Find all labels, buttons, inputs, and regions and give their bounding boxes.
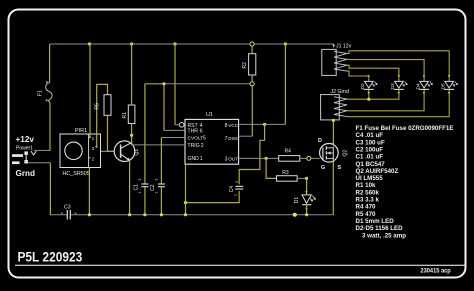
svg-text:D2-D5 1156 LED: D2-D5 1156 LED bbox=[356, 225, 404, 232]
wire: GND pin to ground rail bbox=[184, 164, 187, 216]
resistor R3 bbox=[277, 170, 298, 181]
svg-text:D4: D4 bbox=[415, 83, 421, 89]
svg-text:J2 Grnd: J2 Grnd bbox=[331, 89, 350, 95]
svg-text:5: 5 bbox=[203, 136, 206, 142]
svg-text:Power1: Power1 bbox=[16, 145, 33, 151]
wire: THR pin up to timing node bbox=[164, 84, 185, 131]
wire: timing node down through C1 to ground bbox=[144, 84, 146, 216]
svg-text:C4: C4 bbox=[229, 186, 235, 193]
LED D2 bbox=[360, 75, 377, 94]
+12V top rail bbox=[50, 44, 334, 47]
svg-text:2: 2 bbox=[235, 181, 239, 183]
wire: J2 to Q2 drain bbox=[332, 121, 334, 144]
wire: power connector grnd lead to bottom rail bbox=[28, 163, 51, 216]
wire: R5 top hook to PIR1 pin3 bbox=[97, 84, 108, 147]
resistor R2 bbox=[242, 46, 256, 81]
svg-text:Q2: Q2 bbox=[343, 150, 349, 157]
svg-text:GND: GND bbox=[188, 156, 200, 162]
svg-text:R4: R4 bbox=[285, 148, 292, 154]
svg-text:D1 5mm LED: D1 5mm LED bbox=[356, 218, 395, 225]
svg-text:C2 100uF: C2 100uF bbox=[356, 147, 384, 154]
svg-text:230415 acp: 230415 acp bbox=[420, 268, 451, 274]
node ring gate bbox=[307, 156, 311, 160]
svg-text:R2: R2 bbox=[242, 62, 248, 69]
ground bottom rail bbox=[50, 214, 332, 216]
svg-text:R5 470: R5 470 bbox=[356, 211, 377, 218]
wire: OUT pin to R4 bbox=[239, 157, 279, 160]
svg-text:1: 1 bbox=[138, 192, 142, 194]
connector J3 power input bbox=[12, 135, 36, 178]
svg-text:8: 8 bbox=[225, 123, 228, 129]
wire rail junction dots bbox=[88, 42, 287, 45]
wire: VCC pin to +12 drop bbox=[239, 44, 286, 126]
wire: PIR1 pin1 to +12 rail bbox=[89, 44, 91, 138]
op-amp timer U1 LM555 bbox=[179, 112, 240, 164]
wire: TRIG pin to Q1 collector bbox=[132, 144, 185, 146]
node collector junction bbox=[130, 134, 133, 137]
wire: CVOLT pin down through C2 to ground bbox=[160, 138, 185, 217]
parts list bbox=[356, 125, 454, 239]
svg-text:U1: U1 bbox=[206, 112, 213, 118]
capacitor C3 bbox=[61, 205, 77, 220]
svg-text:G: G bbox=[321, 165, 325, 171]
svg-text:3 watt, .25 amp: 3 watt, .25 amp bbox=[362, 232, 406, 239]
svg-text:R3: R3 bbox=[282, 170, 289, 176]
LED D1 bbox=[294, 191, 315, 210]
svg-text:R3 3.3 k: R3 3.3 k bbox=[356, 197, 380, 204]
LED D5 bbox=[440, 75, 457, 94]
node ring R2 bottom bbox=[250, 82, 254, 86]
wire: J1 pin4 to D2 bbox=[347, 71, 369, 79]
wire: C4 bottom to GND stub bbox=[186, 191, 240, 203]
wire: OUT branch down to R3 bbox=[266, 158, 276, 178]
svg-text:1: 1 bbox=[155, 192, 159, 194]
svg-text:S: S bbox=[338, 165, 342, 171]
svg-text:C3 100 uF: C3 100 uF bbox=[356, 139, 385, 146]
wire: D5 cathode to J2 pin4 bbox=[347, 89, 449, 116]
node ring R2 top bbox=[250, 42, 254, 46]
connector J1 12v bbox=[322, 44, 352, 76]
svg-text:F1 Fuse Bel Fuse 0ZRG0090FF1E: F1 Fuse Bel Fuse 0ZRG0090FF1E bbox=[356, 125, 454, 132]
wire: R4 to Q2 gate bbox=[300, 157, 320, 159]
wire: D2 D3 cathodes to J2 pin1 bbox=[347, 89, 399, 99]
svg-text:D3: D3 bbox=[390, 83, 396, 89]
resistor R5 bbox=[95, 95, 112, 116]
svg-text:HC_SR505: HC_SR505 bbox=[63, 171, 90, 177]
capacitor C1 bbox=[134, 179, 149, 194]
svg-text:Q1: Q1 bbox=[134, 149, 140, 156]
svg-text:CVOLT: CVOLT bbox=[188, 136, 204, 142]
svg-text:2: 2 bbox=[138, 179, 142, 181]
transistor Q2 mosfet bbox=[318, 138, 349, 171]
svg-text:C1: C1 bbox=[134, 184, 140, 191]
svg-text:J1 12v: J1 12v bbox=[336, 44, 352, 50]
svg-text:6: 6 bbox=[200, 129, 203, 135]
wire: R5 bottom to Q1 base bbox=[108, 115, 115, 151]
svg-text:1: 1 bbox=[234, 194, 238, 196]
svg-text:D5: D5 bbox=[440, 83, 446, 89]
svg-text:R4 470: R4 470 bbox=[356, 204, 377, 211]
svg-text:P5L 220923: P5L 220923 bbox=[17, 249, 82, 265]
capacitor C2 bbox=[150, 179, 165, 194]
wire: RST pin to +12 rail bbox=[175, 44, 179, 125]
fuse F1 bbox=[38, 81, 53, 101]
svg-text:R2 560k: R2 560k bbox=[356, 189, 380, 196]
title block line bbox=[15, 264, 465, 266]
svg-text:R5: R5 bbox=[95, 103, 101, 110]
wire: R3 to D1 anode bbox=[297, 177, 308, 195]
svg-text:THR: THR bbox=[188, 129, 199, 135]
svg-text:D2: D2 bbox=[360, 83, 366, 89]
wire: J1 pin2 to D4 bbox=[347, 59, 424, 79]
svg-text:Q1 BC547: Q1 BC547 bbox=[356, 161, 386, 168]
wire: PIR pin3 stub to Q1 base bbox=[101, 150, 114, 152]
resistor R4 bbox=[279, 148, 300, 161]
svg-text:VCC: VCC bbox=[228, 123, 239, 128]
LED D4 bbox=[415, 75, 432, 94]
svg-text:TRIG: TRIG bbox=[188, 143, 200, 149]
svg-text:C2: C2 bbox=[150, 184, 156, 191]
wire: Q1 emitter to ground rail bbox=[129, 160, 131, 215]
svg-text:Grnd: Grnd bbox=[16, 169, 36, 178]
svg-text:1: 1 bbox=[200, 156, 203, 162]
wire: D1 cathode to ground rail bbox=[293, 205, 308, 217]
wire: power connector +12v lead to fuse bbox=[34, 44, 50, 151]
svg-text:PIR1: PIR1 bbox=[75, 128, 87, 134]
wire: J1 pin3 to D3 bbox=[347, 65, 399, 79]
svg-text:+12v: +12v bbox=[16, 135, 35, 144]
svg-text:R1 10k: R1 10k bbox=[356, 182, 377, 189]
wire: R1 bottom to Q1 collector and TRIG bbox=[131, 124, 133, 145]
svg-text:2: 2 bbox=[155, 179, 159, 181]
svg-text:C3: C3 bbox=[64, 205, 71, 211]
svg-text:7: 7 bbox=[225, 136, 228, 142]
connector J2 Grnd bbox=[321, 89, 349, 122]
svg-text:F1: F1 bbox=[38, 90, 44, 96]
svg-text:C1 .01 uF: C1 .01 uF bbox=[356, 154, 384, 161]
svg-text:UI LM555: UI LM555 bbox=[356, 175, 384, 182]
wire: DISC pin up to R2 bottom bbox=[239, 86, 253, 136]
resistor R1 bbox=[122, 105, 135, 124]
svg-text:DISC: DISC bbox=[228, 136, 240, 141]
wire: J1 pin1 to D5 bbox=[347, 51, 449, 79]
wire: PIR1 pin2 to ground rail bbox=[88, 168, 90, 216]
svg-text:OUT: OUT bbox=[228, 156, 238, 161]
svg-text:D1: D1 bbox=[294, 197, 300, 204]
wire: D4 cathode to J2 pin3 bbox=[347, 89, 424, 110]
svg-text:Q2 AUIRF540Z: Q2 AUIRF540Z bbox=[356, 168, 399, 175]
svg-text:R1: R1 bbox=[122, 112, 128, 119]
svg-text:2: 2 bbox=[201, 143, 204, 149]
wire: Q2 source to ground rail bbox=[332, 162, 334, 215]
wire: rail to R1 top bbox=[131, 44, 133, 105]
svg-text:3: 3 bbox=[225, 156, 228, 162]
svg-text:D: D bbox=[318, 138, 322, 144]
transistor Q1 bbox=[114, 141, 140, 162]
wire: decoupling run to C4 bbox=[239, 124, 264, 184]
wire: timing node horizontal to R2 bottom bbox=[145, 82, 250, 85]
PIR sensor PIR1 bbox=[60, 128, 101, 177]
LED D3 bbox=[390, 75, 407, 94]
svg-text:C4 .01 uF: C4 .01 uF bbox=[356, 132, 384, 139]
capacitor C4 bbox=[229, 181, 243, 196]
